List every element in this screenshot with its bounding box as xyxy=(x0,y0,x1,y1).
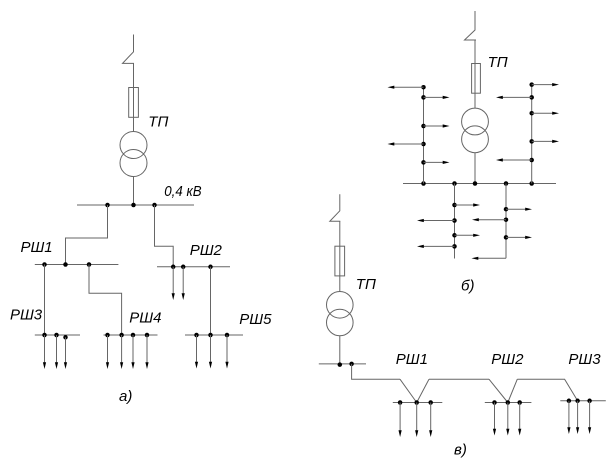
svg-text:РШ4: РШ4 xyxy=(129,310,161,327)
svg-text:РШ3: РШ3 xyxy=(10,307,43,324)
svg-text:в): в) xyxy=(454,442,467,459)
svg-text:ТП: ТП xyxy=(488,54,508,71)
svg-text:РШ5: РШ5 xyxy=(239,311,272,328)
svg-text:ТП: ТП xyxy=(148,113,168,130)
svg-text:РШ2: РШ2 xyxy=(190,242,223,259)
svg-text:РШ1: РШ1 xyxy=(396,351,428,368)
svg-text:РШ2: РШ2 xyxy=(491,351,524,368)
svg-text:РШ1: РШ1 xyxy=(21,239,53,256)
svg-text:ТП: ТП xyxy=(356,276,376,293)
svg-text:б): б) xyxy=(461,277,474,294)
svg-text:РШ3: РШ3 xyxy=(568,351,601,368)
svg-text:а): а) xyxy=(119,388,132,405)
svg-text:0,4 кВ: 0,4 кВ xyxy=(164,183,201,200)
